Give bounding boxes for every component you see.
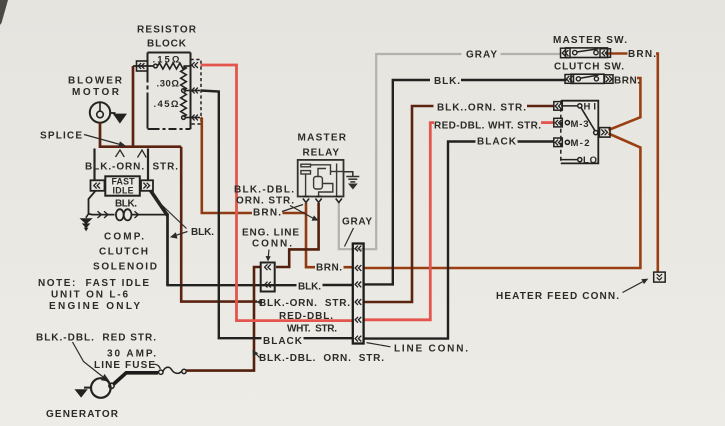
brn relay label pointer	[282, 205, 303, 212]
corner artifact top-left	[0, 0, 8, 25]
svg-text:30 AMP.: 30 AMP.	[107, 349, 156, 360]
svg-text:BLK.-ORN. STR.: BLK.-ORN. STR.	[85, 162, 178, 173]
resistor right connector mid	[192, 88, 198, 94]
wire fast idle right thick black drop	[151, 191, 168, 216]
blk-orn str label pointers	[116, 150, 125, 157]
wire brn clutch switch branch of Y	[609, 78, 641, 130]
splice arrows on coil left lead	[98, 211, 109, 218]
svg-text:BLACK: BLACK	[477, 137, 517, 148]
wire splice up to resistor block left	[132, 66, 135, 148]
svg-text:.30Ω: .30Ω	[157, 79, 180, 90]
svg-text:LINE FUSE: LINE FUSE	[94, 360, 155, 371]
fast idle left connector	[91, 180, 105, 191]
blower switch HI connector	[554, 102, 563, 111]
svg-text:GENERATOR: GENERATOR	[46, 409, 119, 420]
svg-text:BLOWER: BLOWER	[68, 76, 123, 87]
svg-text:BLK.: BLK.	[115, 199, 137, 210]
fast idle box	[105, 176, 140, 195]
resistor left connector	[137, 61, 148, 71]
svg-text:RED-DBL.: RED-DBL.	[279, 311, 333, 322]
wire brn master switch to heater feed conn	[607, 54, 658, 272]
svg-text:BLK.-DBL. ORN. STR.: BLK.-DBL. ORN. STR.	[259, 353, 384, 364]
heater feed conn box	[654, 272, 666, 282]
master switch body	[566, 48, 608, 58]
wire blk-dbl orn str: relay middle terminal to eng line conn to fuse (dark maroon)	[276, 203, 319, 267]
resistor .30 ohm	[181, 66, 200, 92]
svg-text:COMP.: COMP.	[104, 232, 144, 243]
svg-text:M-3: M-3	[571, 119, 589, 130]
svg-text:BRN.: BRN.	[253, 208, 281, 219]
svg-text:WHT. STR.: WHT. STR.	[287, 324, 337, 335]
wire generator to fuse (thick black)	[114, 373, 159, 384]
svg-text:BRN.: BRN.	[614, 76, 640, 87]
wire splice down to blk-orn str run	[181, 147, 257, 302]
generator terminal	[109, 383, 114, 388]
resistor block dashed connector housing	[191, 60, 202, 125]
svg-text:BRN.: BRN.	[628, 49, 656, 60]
wire blower motor to splice (blk-orn str, dark maroon)	[100, 123, 181, 147]
blower switch M-2 connector	[554, 138, 563, 147]
wire brn line conn right to switch Y	[364, 134, 640, 269]
blower motor	[90, 102, 110, 122]
wire brn relay left terminal down to line conn	[306, 203, 315, 267]
generator ground	[84, 387, 91, 389]
fast idle right connector	[141, 180, 153, 191]
wire fast idle left lead to coil	[89, 191, 115, 215]
svg-text:BLK.-DBL. RED STR.: BLK.-DBL. RED STR.	[36, 333, 156, 344]
svg-text:M-2: M-2	[571, 138, 590, 149]
blower switch HI terminal	[561, 105, 578, 107]
heater feed conn pointer	[623, 281, 646, 293]
resistor .15 ohm	[133, 63, 191, 69]
wire gray relay right terminal to line conn to master switch	[339, 54, 462, 249]
wire black eng line conn to line conn (blk)	[323, 284, 354, 286]
wire black resistor mid down to BLACK run to M-2	[201, 91, 262, 339]
master relay ground	[344, 172, 353, 176]
gray label pointer	[345, 228, 354, 247]
resistor right connector top	[192, 62, 198, 68]
svg-text:.15Ω: .15Ω	[153, 55, 180, 66]
clutch switch body	[571, 74, 604, 83]
wire fast idle right drop	[147, 149, 149, 181]
blk-dbl orn relay label pointer	[290, 206, 315, 220]
svg-text:BRN.: BRN.	[316, 263, 342, 274]
wire coil right lead	[132, 214, 168, 216]
svg-text:IDLE: IDLE	[113, 186, 134, 196]
master switch connector right	[600, 49, 611, 58]
blower switch M-3 connector	[554, 118, 563, 127]
svg-text:CONN.: CONN.	[252, 239, 292, 250]
master relay internals	[301, 164, 344, 197]
splice pointer	[84, 135, 122, 146]
svg-text:BLK.-DBL.: BLK.-DBL.	[234, 185, 294, 196]
svg-text:UNIT ON L-6: UNIT ON L-6	[51, 290, 128, 301]
svg-text:BLACK: BLACK	[263, 336, 303, 347]
wire fast idle left drop	[93, 149, 95, 181]
resistor right connector bottom	[192, 115, 198, 121]
svg-text:BLK.: BLK.	[191, 227, 214, 238]
generator circle	[91, 378, 111, 398]
master relay box	[298, 160, 344, 197]
svg-text:BLK.-ORN. STR.: BLK.-ORN. STR.	[259, 298, 350, 309]
wire blk-orn str line conn right up to HI	[364, 106, 434, 302]
svg-text:GRAY: GRAY	[342, 217, 372, 228]
svg-text:HI: HI	[584, 102, 597, 113]
wire red resistor to line conn (red-dbl wht str)	[201, 65, 354, 321]
clutch switch connector right	[605, 75, 614, 84]
svg-text:MASTER: MASTER	[298, 133, 347, 144]
blk-dbl orn str bottom pointer	[256, 354, 260, 358]
ground comp clutch solenoid	[86, 214, 89, 218]
svg-text:RELAY: RELAY	[303, 148, 340, 159]
fuse label pointer	[153, 364, 161, 369]
blower switch M-3 terminal	[565, 121, 569, 125]
wire brn resistor bottom feed (rust)	[201, 118, 253, 214]
resistor .45 ohm	[181, 93, 200, 120]
line fuse symbol	[159, 370, 163, 374]
master switch connector left	[561, 48, 571, 58]
wire black to eng line conn	[166, 284, 296, 286]
master relay terminal arrows	[303, 197, 342, 203]
svg-text:MOTOR: MOTOR	[72, 87, 120, 98]
line conn box	[353, 244, 364, 344]
clutch switch connector left	[565, 75, 574, 84]
blower switch box	[561, 101, 599, 164]
blower switch output connector	[600, 128, 611, 138]
svg-text:GRAY: GRAY	[466, 50, 497, 61]
svg-text:ORN. STR.: ORN. STR.	[236, 196, 294, 207]
svg-text:ENGINE ONLY: ENGINE ONLY	[49, 301, 140, 312]
svg-text:HEATER FEED CONN.: HEATER FEED CONN.	[496, 291, 619, 302]
line conn pointer	[367, 343, 391, 347]
svg-text:BLK..ORN. STR.: BLK..ORN. STR.	[437, 103, 526, 114]
blk-orn str label arrow	[256, 299, 262, 305]
svg-text:RED-DBL. WHT. STR.: RED-DBL. WHT. STR.	[434, 121, 541, 132]
blower motor ground	[110, 112, 116, 114]
eng line conn pointer	[267, 250, 270, 258]
wire black line conn right up to clutch switch	[364, 80, 430, 284]
svg-text:.45Ω: .45Ω	[154, 99, 179, 110]
svg-text:LO: LO	[583, 155, 597, 166]
blower switch blade	[581, 107, 595, 131]
svg-text:CLUTCH SW.: CLUTCH SW.	[554, 62, 624, 73]
svg-text:BLOCK: BLOCK	[147, 39, 187, 50]
svg-text:SOLENOID: SOLENOID	[93, 262, 157, 273]
blower switch M-2 terminal	[565, 140, 569, 144]
blower switch LO terminal	[561, 159, 578, 161]
solenoid coil	[116, 209, 124, 220]
svg-text:RESISTOR: RESISTOR	[137, 25, 197, 36]
svg-text:BLK.: BLK.	[298, 282, 321, 293]
svg-text:MASTER SW.: MASTER SW.	[553, 35, 627, 46]
eng line conn box	[261, 263, 275, 292]
blk label pointer (fast idle)	[156, 200, 187, 229]
generator pointer line	[73, 342, 106, 379]
resistor block box	[148, 53, 191, 130]
svg-text:ENG. LINE: ENG. LINE	[242, 228, 299, 239]
svg-text:SPLICE: SPLICE	[40, 131, 82, 142]
svg-text:BLK.: BLK.	[434, 76, 460, 87]
wire red line conn right up to M-3	[364, 123, 434, 320]
